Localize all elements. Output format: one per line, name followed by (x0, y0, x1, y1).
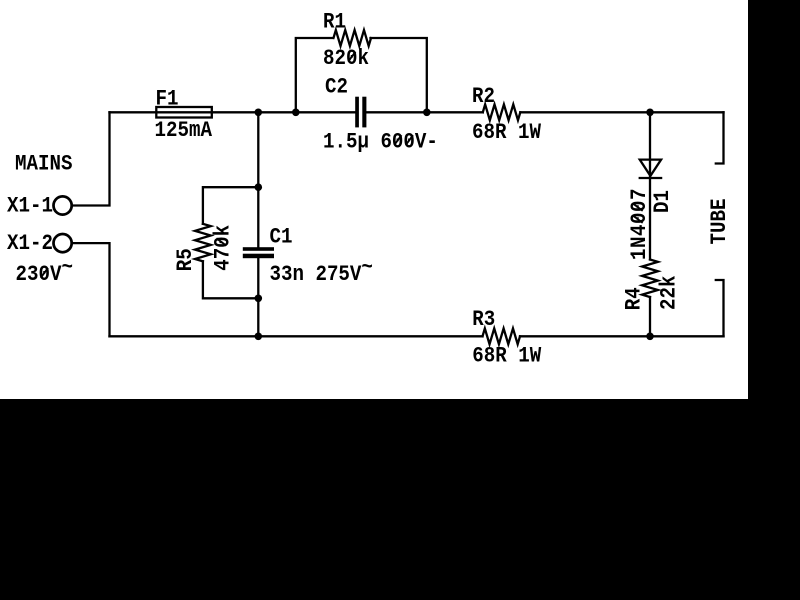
svg-text:68R 1W: 68R 1W (472, 344, 541, 369)
svg-text:820k: 820k (323, 47, 369, 72)
svg-text:C1: C1 (270, 225, 293, 250)
svg-text:R5: R5 (174, 248, 199, 271)
svg-text:1N4007: 1N4007 (628, 188, 653, 260)
svg-text:1.5µ 600V-: 1.5µ 600V- (323, 130, 438, 155)
svg-text:D1: D1 (651, 190, 676, 213)
svg-text:68R 1W: 68R 1W (472, 121, 541, 146)
svg-text:125mA: 125mA (155, 119, 213, 144)
svg-text:MAINS: MAINS (15, 152, 72, 177)
svg-text:22k: 22k (657, 276, 682, 310)
svg-text:470k: 470k (211, 225, 236, 271)
svg-text:R4: R4 (622, 287, 647, 310)
svg-text:C2: C2 (325, 75, 348, 100)
svg-text:R1: R1 (323, 10, 346, 35)
svg-text:F1: F1 (156, 87, 179, 112)
svg-text:X1-2: X1-2 (7, 232, 53, 257)
svg-text:R3: R3 (472, 308, 495, 333)
svg-text:X1-1: X1-1 (7, 194, 53, 219)
svg-text:TUBE: TUBE (708, 199, 733, 245)
svg-text:R2: R2 (472, 85, 495, 110)
